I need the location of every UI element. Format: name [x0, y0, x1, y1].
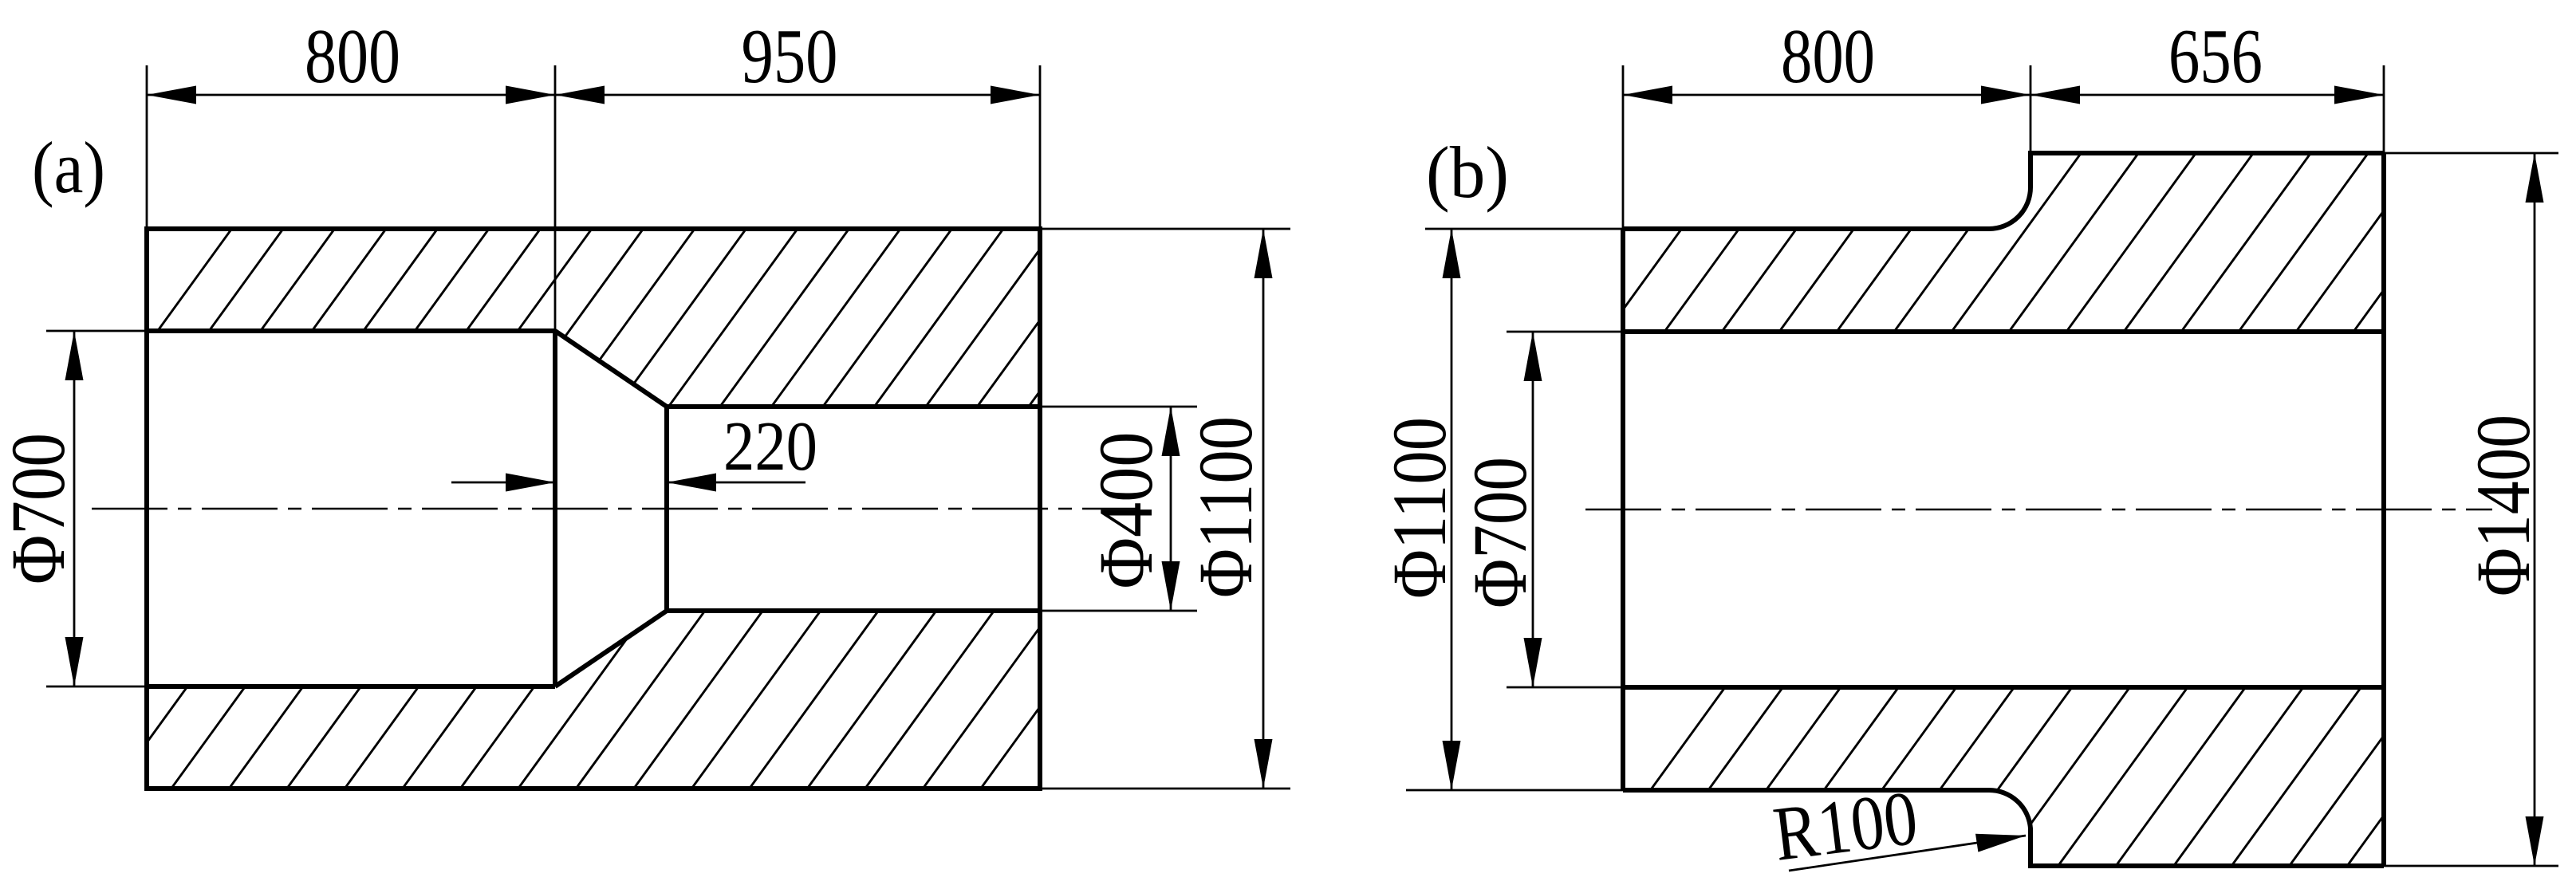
arrowhead phi1100A up [1255, 229, 1273, 278]
outline section A outer [147, 229, 1040, 789]
svg-text:800: 800 [305, 14, 400, 99]
svg-text:Φ700: Φ700 [1457, 457, 1542, 608]
extension lines B top [1623, 65, 2384, 229]
hatch section A top wall [89, 210, 1172, 426]
svg-text:656: 656 [2168, 14, 2263, 99]
leader line R100 [1789, 836, 2026, 871]
svg-text:Φ1400: Φ1400 [2460, 415, 2546, 596]
svg-text:220: 220 [723, 408, 817, 486]
arrowhead 656 left [2030, 86, 2080, 104]
extension lines A phi400 [1040, 407, 1197, 611]
arrowhead 950 right [991, 86, 1040, 104]
arrowhead phi1400 down [2526, 816, 2544, 866]
arrowhead 800A right [506, 86, 555, 104]
dimension line A phi700 [73, 331, 76, 686]
arrowhead 656 right [2334, 86, 2384, 104]
arrowhead phi1100B down [1443, 741, 1461, 790]
arrowhead phi400 down [1162, 561, 1180, 611]
svg-text:950: 950 [742, 14, 838, 99]
arrowhead phi1400 up [2526, 153, 2544, 203]
arrowhead 220 right [667, 474, 716, 492]
cone end face A [664, 407, 669, 611]
svg-text:(b): (b) [1426, 132, 1509, 213]
arrowhead phi700B down [1524, 638, 1542, 687]
dimension line B phi1400 [2534, 153, 2536, 866]
svg-text:R100: R100 [1769, 775, 1922, 877]
arrowhead 800A left [147, 86, 196, 104]
bore step face A [553, 331, 557, 686]
arrowhead phi700A down [65, 637, 84, 686]
arrowhead phi1100B up [1443, 229, 1461, 278]
hatch section B bottom wall [1581, 668, 2491, 885]
svg-text:800: 800 [1781, 14, 1875, 99]
cone transition A [555, 331, 667, 686]
arrowhead 800B left [1623, 86, 1672, 104]
extension lines A phi1100 [1040, 229, 1290, 789]
dimension line A phi1100 [1262, 229, 1265, 789]
centerline axis A [92, 508, 1140, 510]
arrowhead phi1100A down [1255, 739, 1273, 789]
extension lines B phi1100 [1406, 229, 1623, 790]
outline section B right face [2381, 153, 2386, 866]
svg-text:Φ400: Φ400 [1083, 432, 1168, 589]
svg-text:Φ700: Φ700 [0, 433, 81, 584]
svg-text:Φ1100: Φ1100 [1377, 417, 1462, 599]
bore phi400 walls A [667, 407, 1040, 611]
arrowhead 950 left [555, 86, 605, 104]
dimension line A 220 [451, 482, 805, 484]
hatch section A bottom wall [100, 592, 1182, 808]
bore phi700 walls A [147, 331, 555, 686]
dimension line A phi400 [1170, 407, 1172, 611]
bore phi700 walls B [1623, 332, 2384, 687]
arrowhead R100 [1975, 834, 2026, 852]
extension lines B phi1400 [2384, 153, 2558, 866]
outline section B bottom profile with fillet [1623, 790, 2384, 866]
dimension line A top 800/950 [147, 94, 1040, 96]
extension lines A phi700 [46, 331, 147, 686]
svg-text:Φ1100: Φ1100 [1183, 416, 1268, 598]
extension lines A top [147, 65, 1040, 331]
arrowhead phi400 up [1162, 407, 1180, 456]
dimension line B top 800/656 [1623, 94, 2384, 96]
dimension line B phi1100 [1451, 229, 1453, 790]
outline section B top profile with fillet [1623, 153, 2384, 229]
extension lines B phi700 [1507, 332, 1623, 687]
svg-text:(a): (a) [32, 127, 105, 208]
dimension line B phi700 [1532, 332, 1534, 687]
centerline axis B [1585, 509, 2492, 511]
arrowhead 800B right [1981, 86, 2030, 104]
arrowhead phi700B up [1524, 332, 1542, 381]
hatch section B top wall [1593, 134, 2497, 351]
arrowhead phi700A up [65, 331, 84, 380]
outline section B left face [1621, 229, 1625, 790]
arrowhead 220 left [506, 474, 555, 492]
